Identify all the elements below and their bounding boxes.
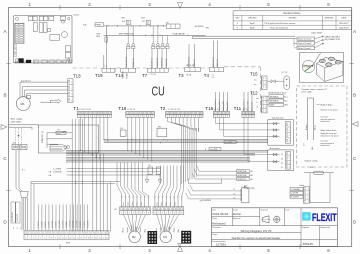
bundle bends into CH1 and SPK labels — [186, 165, 241, 199]
svg-text:1: 1 — [127, 116, 128, 118]
svg-text:rd: rd — [257, 106, 259, 108]
svg-text:6: 6 — [140, 213, 141, 215]
svg-text:3: 3 — [162, 213, 163, 215]
wire trunk bus B (middle) — [66, 151, 268, 156]
svg-text:2 3 4 5 6 7 8 9 1: 2 3 4 5 6 7 8 9 1 — [79, 109, 91, 111]
svg-text:2019-05-02: 2019-05-02 — [212, 212, 228, 216]
vertical wires from T1 pins into mesh — [80, 117, 108, 159]
svg-text:T-AVKST VC: T-AVKST VC — [188, 57, 191, 67]
svg-text:2: 2 — [171, 116, 172, 118]
heating element terminal strip — [303, 187, 309, 203]
svg-text:Tacho: Tacho — [165, 202, 167, 206]
svg-text:20: 20 — [95, 238, 97, 240]
svg-text:T13: T13 — [73, 74, 81, 79]
connector T7 body — [147, 68, 168, 76]
svg-text:M3: M3 — [163, 235, 167, 239]
svg-text:24: 24 — [281, 167, 283, 169]
svg-text:T16 1/GPX: T16 1/GPX — [59, 221, 61, 228]
svg-text:Nordic CL-series w electrical: Nordic CL-series w electrical heater — [232, 236, 281, 240]
svg-text:& DC cable: & DC cable — [302, 92, 313, 94]
cable clamp trapezoid lower-left — [16, 188, 28, 198]
svg-text:Erlton: Erlton — [233, 212, 241, 216]
svg-text:6: 6 — [327, 2, 330, 7]
svg-text:4: 4 — [237, 23, 238, 25]
svg-text:Tacho: Tacho — [128, 202, 130, 206]
component box B2 (relay) — [157, 126, 167, 136]
dashed option wires top-left of mesh — [16, 128, 22, 147]
svg-text:E3-N/GPx: E3-N/GPx — [195, 26, 204, 28]
svg-text:16: 16 — [80, 238, 82, 240]
svg-text:6: 6 — [98, 116, 99, 118]
connector T1 body — [77, 111, 111, 114]
svg-text:Released: Released — [212, 221, 225, 225]
svg-text:3: 3 — [308, 197, 309, 199]
svg-text:A1: A1 — [115, 208, 117, 211]
svg-text:E-1A/GPx: E-1A/GPx — [203, 199, 211, 202]
svg-text:2023-09-23: 2023-09-23 — [339, 27, 349, 29]
svg-text:N 14/GPB: N 14/GPB — [291, 197, 299, 199]
svg-text:6: 6 — [327, 248, 330, 253]
title block drawn cell — [233, 208, 241, 216]
rotated wire labels below fan strips — [123, 224, 180, 232]
FLEXIT logo cyan square with snowflake — [302, 212, 310, 220]
svg-text:SPARKSET (1): SPARKSET (1) — [41, 130, 44, 143]
frame row letters A-D left and right — [3, 29, 357, 225]
svg-text:On of user: On of user — [321, 140, 329, 142]
svg-text:SPK3TB-A: SPK3TB-A — [238, 170, 247, 173]
3D unit isometric body — [317, 57, 344, 81]
svg-text:SPK3TB-C: SPK3TB-C — [238, 179, 247, 181]
svg-text:On of user: On of user — [321, 116, 329, 118]
title block projection cell with symbol — [261, 208, 281, 223]
svg-text:2: 2 — [246, 116, 247, 118]
svg-text:7: 7 — [178, 213, 179, 215]
svg-text:Switched input: Switched input — [272, 116, 284, 119]
svg-text:1: 1 — [154, 213, 155, 215]
svg-text:CHECKED: CHECKED — [248, 18, 257, 20]
svg-text:Cable 90567: Cable 90567 — [311, 32, 323, 34]
svg-text:4: 4 — [178, 116, 179, 118]
svg-text:REVISED: REVISED — [289, 18, 298, 20]
wires from T16 to switched input box — [216, 117, 270, 136]
svg-text:355145: 355145 — [303, 242, 314, 246]
heater circuit wires — [310, 173, 331, 203]
svg-text:1: 1 — [243, 116, 244, 118]
svg-text:1: 1 — [265, 78, 266, 80]
svg-text:1 2 3 4 5 6: 1 2 3 4 5 6 — [127, 109, 135, 111]
connector T15 body — [254, 76, 267, 89]
svg-text:2: 2 — [158, 213, 159, 215]
svg-text:S22: S22 — [13, 143, 16, 145]
svg-text:Modbus 24V: Modbus 24V — [227, 101, 229, 111]
svg-text:3: 3 — [289, 135, 290, 137]
svg-text:T4: T4 — [204, 73, 210, 78]
wires above fan strips with labels — [121, 196, 183, 207]
svg-text:Brown: Brown — [305, 125, 308, 130]
svg-text:SPK3TB-B: SPK3TB-B — [238, 175, 247, 177]
wire drop with fuse F16 from line 1 — [96, 26, 107, 44]
connector T12 body — [257, 96, 268, 113]
svg-text:3: 3 — [13, 228, 14, 230]
svg-text:T1 1/GPX: T1 1/GPX — [49, 221, 51, 228]
svg-text:2: 2 — [308, 193, 309, 195]
main supply text — [11, 119, 24, 124]
svg-text:117591: 117591 — [216, 243, 226, 247]
svg-text:T2 4/GPX: T2 4/GPX — [56, 221, 58, 228]
svg-text:T19: T19 — [95, 73, 103, 78]
main wire bundle vertical right — [182, 128, 197, 184]
svg-text:T15: T15 — [250, 72, 258, 77]
EXT distribution bus lines — [31, 182, 120, 231]
svg-text:10: 10 — [58, 238, 60, 240]
svg-text:3: 3 — [237, 27, 238, 29]
example connection dashed box — [297, 86, 348, 167]
unit boundary dashed line horizontal — [73, 67, 261, 68]
revision history table — [233, 11, 351, 30]
svg-text:MODBUS+: MODBUS+ — [270, 96, 280, 98]
svg-text:4: 4 — [308, 201, 309, 203]
svg-text:L2 4/GPB: L2 4/GPB — [291, 193, 299, 195]
svg-text:9: 9 — [109, 116, 110, 118]
svg-text:b: b — [257, 102, 258, 104]
fan feeder wires left group with bends — [117, 162, 149, 196]
svg-text:1: 1 — [289, 124, 290, 126]
svg-text:12: 12 — [66, 238, 68, 240]
title block outline — [212, 208, 338, 247]
svg-text:Replaced by: Replaced by — [320, 227, 330, 229]
svg-text:Black: Black — [123, 228, 125, 232]
svg-text:1: 1 — [289, 154, 290, 156]
svg-text:U1: U1 — [281, 154, 283, 156]
svg-text:CP4/G2/M: CP4/G2/M — [53, 172, 62, 174]
wire supply-air sensor run label box — [83, 23, 104, 27]
svg-text:Yellow: Yellow — [173, 227, 175, 233]
CU board corner mounting holes — [15, 17, 70, 61]
connector T16 body — [213, 111, 229, 114]
svg-text:2: 2 — [289, 130, 290, 132]
fuse F1 — [47, 129, 72, 134]
svg-text:Modbus GND: Modbus GND — [248, 100, 250, 111]
svg-text:Tacho: Tacho — [123, 202, 125, 206]
svg-text:T16: T16 — [205, 106, 213, 111]
svg-text:Tacho: Tacho — [174, 202, 176, 206]
svg-text:14: 14 — [73, 238, 75, 240]
svg-text:F1: F1 — [58, 129, 60, 131]
bus takeoff labels left — [49, 167, 62, 177]
svg-text:4: 4 — [265, 111, 266, 113]
svg-text:White: White — [313, 125, 316, 130]
svg-text:TV6 & grid function/Pressure s: TV6 & grid function/Pressure sensors — [264, 22, 295, 25]
svg-text:L1A 230VAC: L1A 230VAC — [11, 211, 14, 221]
svg-text:3: 3 — [289, 162, 290, 164]
wires above T11 with rotated labels — [243, 92, 245, 111]
svg-text:TN-MAV VD: TN-MAV VD — [132, 58, 135, 68]
svg-text:2: 2 — [131, 116, 132, 118]
terminal block T9 (heater) — [166, 24, 180, 28]
svg-text:4: 4 — [208, 2, 211, 7]
wires into T7 with rotated labels — [151, 49, 153, 69]
svg-text:3: 3 — [129, 213, 130, 215]
svg-text:Supply fan in max and: Supply fan in max and — [321, 133, 337, 135]
svg-text:9: 9 — [197, 116, 198, 118]
wires fan strips converge to motors — [124, 215, 179, 232]
vertical wire group from T13 down to EXT — [72, 119, 82, 231]
svg-text:4: 4 — [227, 116, 228, 118]
svg-text:PE/W: PE/W — [96, 24, 101, 26]
svg-text:F10: F10 — [122, 21, 125, 23]
svg-text:T-AVK VD: T-AVK VD — [193, 59, 196, 67]
svg-text:3: 3 — [175, 116, 176, 118]
svg-text:3: 3 — [148, 248, 151, 253]
fan feeder wires right group with bends — [155, 166, 184, 196]
power inlet section box — [38, 125, 98, 153]
title block registern cell — [302, 226, 313, 246]
dark pin block connector X1 — [148, 231, 158, 244]
svg-text:Tacho: Tacho — [141, 202, 143, 206]
svg-text:L1: L1 — [234, 194, 236, 196]
svg-text:Main supply: Main supply — [11, 119, 24, 121]
earth terminal circles in power box — [64, 146, 70, 149]
svg-text:Modbus 24V: Modbus 24V — [252, 101, 254, 111]
rotated supply labels above EXT strip left — [11, 202, 21, 230]
svg-text:S: S — [127, 21, 129, 25]
svg-text:RydU: RydU — [250, 27, 255, 29]
PE yellow-green arrow — [40, 99, 61, 104]
svg-text:Tacho: Tacho — [137, 202, 139, 206]
power box internal wires — [47, 133, 72, 148]
svg-text:7: 7 — [101, 116, 102, 118]
svg-text:Yellow/Green: Yellow/Green — [40, 102, 51, 104]
connector T4 body — [210, 68, 224, 80]
wires from T11 to accessories box — [244, 117, 270, 161]
diode symbols under K2 — [145, 174, 162, 183]
svg-text:Modbus Slave 1: Modbus Slave 1 — [244, 99, 246, 111]
supply fan motor M2 circle — [129, 231, 141, 243]
wires into T4 with rotated labels — [213, 41, 215, 68]
svg-text:1 2 3 4 5: 1 2 3 4 5 — [150, 74, 157, 76]
RS485 Modbus Slave labels — [267, 92, 289, 106]
svg-text:F20: F20 — [310, 167, 313, 169]
svg-text:19: 19 — [92, 238, 94, 240]
svg-text:7: 7 — [189, 116, 190, 118]
svg-text:F15A 2xAV3M: F15A 2xAV3M — [173, 33, 185, 36]
svg-text:L1 FB 230V: L1 FB 230V — [70, 220, 72, 228]
svg-text:11: 11 — [62, 238, 64, 240]
3D unit illustration box — [300, 53, 344, 83]
svg-text:Scale: Scale — [285, 209, 289, 211]
svg-text:S: S — [147, 21, 149, 25]
svg-text:Example: how to connect OT: Example: how to connect OT — [302, 88, 328, 91]
svg-text:RS485 Modbus Slave: RS485 Modbus Slave — [268, 92, 286, 94]
junction dots on bus A — [103, 139, 167, 143]
svg-text:10: 10 — [200, 116, 202, 118]
wires into T3 with rotated labels — [188, 44, 190, 68]
CU control board PCB outline — [14, 16, 73, 64]
svg-text:4: 4 — [289, 141, 290, 143]
svg-text:SPE: SPE — [206, 27, 209, 29]
component box B1 (pressure switch) — [120, 128, 126, 136]
connector CH1 body — [240, 188, 249, 203]
fan motor M1 circle — [16, 96, 30, 111]
example box title — [302, 88, 328, 94]
main supply cable wires — [9, 125, 38, 130]
wire trunk bus C (lower) — [66, 158, 250, 163]
OT TV external connector — [267, 72, 290, 89]
svg-text:5: 5 — [182, 116, 183, 118]
boxed net labels SPK3TB — [237, 170, 255, 190]
title block grid lines — [212, 208, 338, 247]
svg-text:3: 3 — [223, 116, 224, 118]
svg-text:1: 1 — [25, 238, 26, 240]
svg-text:SPETTERB B (A): SPETTERB B (A) — [119, 33, 134, 36]
svg-text:3: 3 — [33, 238, 34, 240]
svg-text:T11: T11 — [234, 106, 242, 111]
svg-text:5: 5 — [137, 213, 138, 215]
svg-text:T14 1/GPX: T14 1/GPX — [73, 221, 75, 228]
svg-text:1: 1 — [167, 116, 168, 118]
svg-text:5: 5 — [144, 116, 145, 118]
callout arrows to dual connection note — [315, 35, 341, 48]
svg-text:K2: K2 — [149, 165, 151, 167]
svg-text:Modbus Slave 2: Modbus Slave 2 — [219, 99, 221, 111]
svg-text:3: 3 — [265, 106, 266, 108]
svg-text:4: 4 — [252, 116, 253, 118]
connector T13 body — [68, 79, 73, 103]
extract fan motor M3 circle — [160, 231, 172, 243]
svg-text:2: 2 — [82, 116, 83, 118]
svg-text:4: 4 — [133, 213, 134, 215]
svg-text:T+ 2/GPA: T+ 2/GPA — [53, 167, 62, 170]
svg-text:2: 2 — [289, 158, 290, 160]
wires from clamp to EXT strip — [22, 198, 27, 231]
heater net label boxes — [290, 188, 303, 199]
svg-text:8: 8 — [105, 116, 106, 118]
svg-text:1: 1 — [308, 189, 309, 191]
svg-text:RydU: RydU — [250, 23, 255, 25]
svg-text:Description: Description — [212, 226, 221, 229]
svg-text:7: 7 — [144, 213, 145, 215]
svg-text:Date: Date — [212, 208, 216, 211]
svg-text:4: 4 — [90, 116, 91, 118]
boxed net label SPK2TB-B — [224, 141, 239, 144]
svg-text:21: 21 — [99, 238, 101, 240]
svg-text:4: 4 — [71, 100, 72, 102]
svg-text:Revision history: Revision history — [284, 12, 302, 15]
svg-text:23: 23 — [281, 163, 283, 165]
CU board right edge connectors — [65, 46, 70, 58]
svg-text:Brown 0,5 mm2: Brown 0,5 mm2 — [298, 38, 311, 41]
fuse F20 with label — [304, 167, 334, 174]
svg-text:cooker hood: cooker hood — [321, 121, 330, 123]
relay K2 coils — [148, 165, 161, 174]
svg-text:Brown: Brown — [126, 228, 129, 233]
CU board processor IC — [50, 34, 60, 40]
svg-text:1 2 3 4 5 6 7 8 9: 1 2 3 4 5 6 7 8 9 — [168, 109, 180, 111]
svg-text:Yellow: Yellow — [140, 227, 142, 233]
svg-text:T7 1/GPX: T7 1/GPX — [38, 221, 40, 228]
connector T17 body (extract fan) — [153, 207, 184, 211]
svg-text:L2: L2 — [234, 197, 236, 199]
wire heater safety line 1 — [104, 25, 167, 27]
title block date cell — [212, 208, 228, 216]
junction dots on trunk crossings — [72, 152, 83, 185]
cable bundle trapezoid symbol — [50, 145, 67, 151]
svg-text:B: B — [3, 93, 6, 98]
svg-text:17: 17 — [84, 238, 86, 240]
boxed net label SPK2TB-A — [205, 148, 221, 151]
svg-text:3: 3 — [136, 116, 137, 118]
svg-text:T-AVKST VC: T-AVKST VC — [212, 57, 215, 67]
svg-text:1: 1 — [28, 2, 31, 7]
connector T18 body — [126, 111, 155, 114]
svg-text:Drawn: Drawn — [233, 208, 238, 211]
svg-text:Wiring Diagram CS 70: Wiring Diagram CS 70 — [241, 229, 272, 233]
connector T11 body — [242, 111, 255, 114]
svg-text:2: 2 — [71, 88, 72, 90]
svg-text:EXT: EXT — [66, 243, 71, 245]
svg-text:3: 3 — [86, 116, 87, 118]
svg-text:TN-air (w) introduced: TN-air (w) introduced — [270, 26, 288, 29]
svg-text:T18 3/GPX: T18 3/GPX — [87, 221, 89, 228]
svg-text:[W] CONNECTION: [W] CONNECTION — [325, 39, 341, 41]
svg-text:2021-06-27: 2021-06-27 — [339, 23, 349, 25]
svg-text:4: 4 — [289, 167, 290, 169]
svg-text:18: 18 — [88, 238, 90, 240]
svg-text:2: 2 — [20, 228, 21, 230]
svg-text:2: 2 — [265, 102, 266, 104]
svg-text:8: 8 — [148, 213, 149, 215]
svg-text:Tacho: Tacho — [132, 202, 134, 206]
svg-text:5: 5 — [267, 248, 270, 253]
wire heater safety line 2 SPETTERB — [104, 33, 206, 37]
svg-text:T-AVK VD: T-AVK VD — [216, 59, 219, 67]
svg-text:Modbus GND: Modbus GND — [223, 100, 225, 111]
svg-text:1: 1 — [28, 248, 31, 253]
svg-text:6: 6 — [148, 116, 149, 118]
svg-text:OT, TV: OT, TV — [282, 72, 289, 74]
safety switch S1 contact block — [12, 143, 27, 150]
vertical wire group from power box down to EXT — [93, 153, 111, 231]
svg-text:3: 3 — [71, 94, 72, 96]
svg-text:8: 8 — [181, 213, 182, 215]
CU board bottom-left LED dots — [15, 61, 26, 63]
thermal cutout F10 symbol — [122, 20, 130, 24]
svg-text:GND: GND — [270, 105, 275, 107]
earth symbol near bottom border — [178, 244, 182, 247]
svg-text:5: 5 — [170, 213, 171, 215]
vertical wires from T2 pins into bundle — [168, 117, 199, 131]
svg-text:Accessories: Accessories — [270, 147, 280, 150]
bus wires left takeoffs — [67, 169, 161, 175]
example wiring sketch — [304, 98, 339, 163]
svg-text:T14: T14 — [115, 73, 123, 78]
svg-text:3: 3 — [249, 116, 250, 118]
svg-text:MODBUS-: MODBUS- — [270, 101, 279, 103]
svg-text:CU: CU — [152, 83, 165, 98]
wires fan M1 to T13 — [20, 82, 68, 97]
svg-text:T-MAVST VD: T-MAVST VD — [161, 57, 164, 68]
wire trunk bus A (upper) — [104, 140, 268, 143]
svg-text:N 14/GPB: N 14/GPB — [17, 213, 19, 221]
magnifier circle with coloured wires — [302, 53, 320, 73]
svg-text:cooker hood: cooker hood — [321, 145, 330, 147]
title block status cell — [212, 217, 225, 225]
svg-text:Project: Project — [212, 233, 218, 236]
svg-text:230V 50Hz: 230V 50Hz — [11, 122, 22, 124]
CU board bottom connector row with dark sockets — [19, 58, 72, 63]
svg-text:Lord SPE: Lord SPE — [210, 149, 218, 151]
title block project cell — [212, 233, 280, 240]
